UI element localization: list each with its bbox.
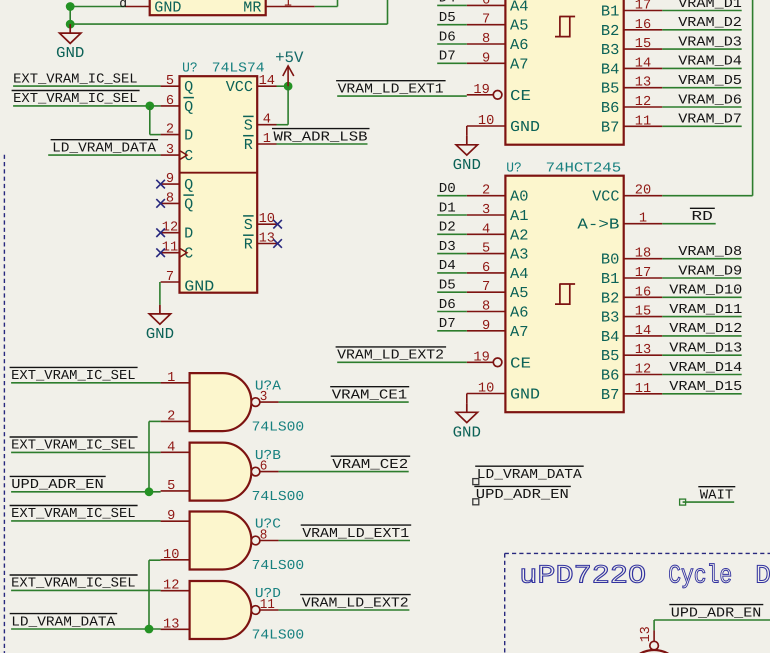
svg-text:2: 2 [482, 184, 490, 199]
svg-text:VRAM_D10: VRAM_D10 [669, 284, 742, 299]
svg-text:EXT_VRAM_IC_SEL: EXT_VRAM_IC_SEL [13, 72, 137, 87]
svg-text:A4: A4 [510, 265, 529, 283]
svg-text:19: 19 [473, 350, 489, 365]
svg-text:VRAM_LD_EXT2: VRAM_LD_EXT2 [337, 349, 444, 364]
svg-text:74HCT245: 74HCT245 [546, 161, 622, 176]
svg-text:VRAM_D15: VRAM_D15 [669, 380, 742, 395]
svg-text:4: 4 [482, 222, 490, 237]
svg-text:U?: U? [506, 161, 522, 176]
svg-text:A3: A3 [510, 246, 529, 264]
svg-text:GND: GND [510, 386, 540, 404]
svg-text:EXT_VRAM_IC_SEL: EXT_VRAM_IC_SEL [11, 507, 135, 522]
svg-text:R: R [244, 236, 253, 254]
svg-text:A2: A2 [510, 226, 529, 244]
svg-text:U?: U? [182, 61, 198, 76]
svg-text:VRAM_CE1: VRAM_CE1 [332, 388, 408, 403]
svg-text:9: 9 [167, 509, 175, 524]
svg-text:VRAM_D13: VRAM_D13 [669, 342, 742, 357]
svg-text:CE: CE [510, 87, 531, 105]
svg-text:CE: CE [510, 354, 531, 372]
svg-text:1: 1 [263, 132, 271, 147]
svg-text:6: 6 [482, 0, 490, 8]
svg-text:D0: D0 [439, 182, 456, 197]
svg-text:5: 5 [482, 242, 490, 257]
svg-text:15: 15 [635, 305, 651, 320]
svg-text:B6: B6 [601, 367, 620, 385]
svg-text:10: 10 [478, 114, 494, 129]
svg-text:GND: GND [56, 44, 84, 62]
svg-text:1: 1 [284, 0, 292, 10]
svg-text:18: 18 [635, 247, 651, 262]
svg-text:D5: D5 [439, 11, 456, 26]
svg-text:D4: D4 [439, 0, 456, 7]
svg-text:UPD_ADR_EN: UPD_ADR_EN [11, 478, 104, 493]
svg-text:3: 3 [482, 203, 490, 218]
svg-text:D: D [184, 127, 193, 145]
svg-text:D5: D5 [439, 279, 456, 294]
svg-text:13: 13 [163, 617, 179, 632]
svg-text:7: 7 [482, 280, 490, 295]
svg-text:VRAM_D9: VRAM_D9 [678, 264, 742, 279]
svg-text:16: 16 [635, 285, 651, 300]
svg-text:Q: Q [184, 176, 193, 194]
svg-text:D4: D4 [439, 259, 456, 274]
svg-text:VRAM_D8: VRAM_D8 [678, 245, 742, 260]
svg-text:LD_VRAM_DATA: LD_VRAM_DATA [52, 141, 157, 156]
svg-text:Q: Q [184, 78, 193, 96]
svg-text:A7: A7 [510, 55, 529, 73]
svg-text:uPD722O: uPD722O [519, 561, 646, 591]
svg-text:A1: A1 [510, 207, 529, 225]
svg-text:A6: A6 [510, 304, 529, 322]
svg-text:9: 9 [166, 172, 174, 187]
svg-text:D: D [755, 561, 770, 591]
svg-text:U?D: U?D [255, 587, 281, 602]
svg-text:R: R [244, 136, 253, 154]
svg-text:14: 14 [635, 324, 651, 339]
svg-text:13: 13 [635, 343, 651, 358]
svg-text:GND: GND [453, 423, 481, 441]
svg-text:B5: B5 [601, 80, 620, 98]
svg-text:EXT_VRAM_IC_SEL: EXT_VRAM_IC_SEL [11, 439, 135, 454]
svg-text:6: 6 [166, 94, 174, 109]
svg-text:VRAM_D7: VRAM_D7 [678, 113, 742, 128]
svg-text:10: 10 [163, 548, 179, 563]
svg-text:2: 2 [166, 123, 174, 138]
svg-text:4: 4 [263, 113, 271, 128]
svg-text:Q: Q [184, 195, 193, 213]
svg-text:RD: RD [691, 210, 712, 225]
svg-text:D: D [184, 225, 193, 243]
svg-text:Cycle: Cycle [668, 561, 732, 591]
svg-text:+5V: +5V [275, 49, 304, 67]
svg-text:D6: D6 [439, 298, 456, 313]
svg-text:14: 14 [635, 56, 651, 71]
svg-text:B6: B6 [601, 99, 620, 117]
svg-text:VRAM_D2: VRAM_D2 [678, 16, 742, 31]
svg-text:12: 12 [163, 579, 179, 594]
svg-text:D2: D2 [439, 221, 456, 236]
svg-text:13: 13 [635, 76, 651, 91]
svg-text:GND: GND [146, 325, 174, 343]
svg-text:74LS00: 74LS00 [252, 421, 305, 436]
svg-text:GND: GND [453, 156, 481, 174]
svg-text:1: 1 [167, 371, 175, 386]
svg-text:VRAM_D12: VRAM_D12 [669, 322, 742, 337]
svg-text:A->B: A->B [577, 216, 619, 234]
svg-text:12: 12 [635, 95, 651, 110]
svg-text:74LS00: 74LS00 [252, 490, 305, 505]
svg-text:4: 4 [167, 440, 175, 455]
svg-text:D7: D7 [439, 317, 456, 332]
svg-text:VRAM_D6: VRAM_D6 [678, 93, 742, 108]
svg-text:S: S [244, 216, 253, 234]
svg-text:1: 1 [639, 212, 647, 227]
svg-text:D7: D7 [439, 50, 456, 65]
svg-text:VCC: VCC [592, 188, 619, 206]
svg-text:11: 11 [635, 114, 651, 129]
svg-text:VRAM_D11: VRAM_D11 [669, 303, 742, 318]
svg-text:VRAM_D4: VRAM_D4 [678, 55, 742, 70]
svg-text:16: 16 [635, 18, 651, 33]
svg-text:LD_VRAM_DATA: LD_VRAM_DATA [477, 468, 583, 483]
svg-text:S: S [244, 117, 253, 135]
svg-text:74LS00: 74LS00 [252, 559, 305, 574]
svg-text:B7: B7 [601, 118, 620, 136]
svg-text:11: 11 [635, 382, 651, 397]
svg-text:7: 7 [482, 13, 490, 28]
svg-text:17: 17 [635, 266, 651, 281]
svg-text:9: 9 [482, 319, 490, 334]
svg-text:13: 13 [639, 626, 654, 642]
svg-text:U?A: U?A [255, 379, 282, 394]
svg-text:D1: D1 [439, 201, 456, 216]
svg-text:VRAM_D5: VRAM_D5 [678, 74, 742, 89]
svg-text:UPD_ADR_EN: UPD_ADR_EN [476, 488, 569, 503]
svg-text:3: 3 [166, 143, 174, 158]
svg-text:B3: B3 [601, 41, 620, 59]
svg-text:6: 6 [482, 261, 490, 276]
svg-text:GND: GND [184, 278, 214, 296]
svg-text:19: 19 [473, 83, 489, 98]
svg-text:Q: Q [184, 98, 193, 116]
svg-text:13: 13 [259, 232, 275, 247]
svg-text:VRAM_D3: VRAM_D3 [678, 35, 742, 50]
svg-text:A0: A0 [510, 188, 529, 206]
svg-text:8: 8 [482, 300, 490, 315]
svg-text:A6: A6 [510, 36, 529, 54]
svg-text:B5: B5 [601, 347, 620, 365]
svg-text:EXT_VRAM_IC_SEL: EXT_VRAM_IC_SEL [13, 92, 137, 107]
svg-text:B3: B3 [601, 309, 620, 327]
svg-text:WAIT: WAIT [700, 488, 734, 503]
svg-text:B2: B2 [601, 22, 620, 40]
svg-text:VCC: VCC [226, 78, 253, 96]
svg-text:A7: A7 [510, 323, 529, 341]
svg-text:LD_VRAM_DATA: LD_VRAM_DATA [11, 615, 116, 630]
svg-text:B7: B7 [601, 386, 620, 404]
svg-text:EXT_VRAM_IC_SEL: EXT_VRAM_IC_SEL [11, 577, 135, 592]
svg-text:12: 12 [635, 363, 651, 378]
svg-text:B4: B4 [601, 60, 620, 78]
svg-text:VRAM_D1: VRAM_D1 [678, 0, 742, 12]
svg-text:B0: B0 [601, 251, 620, 269]
svg-text:A5: A5 [510, 17, 529, 35]
svg-text:GND: GND [510, 118, 540, 136]
svg-text:B4: B4 [601, 328, 620, 346]
svg-text:d: d [119, 0, 127, 11]
svg-text:VRAM_D14: VRAM_D14 [669, 361, 742, 376]
svg-text:WR_ADR_LSB: WR_ADR_LSB [274, 130, 368, 145]
svg-text:74LS74: 74LS74 [212, 61, 265, 76]
svg-text:MR: MR [243, 0, 261, 17]
svg-text:5: 5 [167, 479, 175, 494]
svg-text:9: 9 [482, 51, 490, 66]
svg-text:D3: D3 [439, 240, 456, 255]
svg-text:20: 20 [635, 184, 651, 199]
svg-text:17: 17 [635, 0, 651, 14]
svg-text:8: 8 [166, 191, 174, 206]
svg-text:74LS00: 74LS00 [252, 628, 305, 643]
svg-text:15: 15 [635, 37, 651, 52]
svg-text:UPD_ADR_EN: UPD_ADR_EN [671, 606, 762, 621]
svg-text:VRAM_LD_EXT1: VRAM_LD_EXT1 [338, 82, 444, 97]
svg-text:14: 14 [259, 74, 275, 89]
svg-text:VRAM_LD_EXT2: VRAM_LD_EXT2 [302, 596, 409, 611]
svg-text:2: 2 [167, 409, 175, 424]
svg-text:A5: A5 [510, 284, 529, 302]
svg-text:GND: GND [154, 0, 181, 17]
svg-text:8: 8 [482, 32, 490, 47]
svg-text:10: 10 [478, 382, 494, 397]
svg-text:U?C: U?C [255, 518, 281, 533]
svg-text:5: 5 [166, 74, 174, 89]
svg-text:VRAM_CE2: VRAM_CE2 [332, 458, 408, 473]
svg-text:U?B: U?B [255, 449, 281, 464]
svg-text:A4: A4 [510, 0, 529, 15]
svg-text:B1: B1 [601, 270, 620, 288]
svg-text:B1: B1 [601, 3, 620, 21]
svg-text:10: 10 [259, 212, 275, 227]
svg-text:B2: B2 [601, 289, 620, 307]
svg-text:EXT_VRAM_IC_SEL: EXT_VRAM_IC_SEL [11, 369, 135, 384]
svg-text:7: 7 [166, 270, 174, 285]
svg-text:VRAM_LD_EXT1: VRAM_LD_EXT1 [302, 527, 409, 542]
svg-text:D6: D6 [439, 30, 456, 45]
